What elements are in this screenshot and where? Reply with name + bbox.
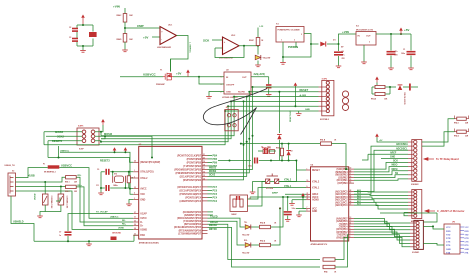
svg-text:XTAL1: XTAL1 [312,187,320,190]
svg-text:OUT: OUT [242,77,247,79]
svg-text:To TF Relay Board: To TF Relay Board [436,157,459,161]
svg-text:(T1/PCINT4)PB4: (T1/PCINT4)PB4 [183,165,201,168]
wire stub b2 [101,136,105,139]
svg-text:-: - [161,39,162,42]
U3 pin PC stub [202,196,208,198]
wire [251,244,259,246]
wire PD0 stub [208,211,214,213]
wire [335,235,349,267]
ICSP2 stub [319,91,327,93]
junction [248,91,250,93]
wire AREF row [368,153,408,155]
U4 pin (SS)PB2 stub [349,177,354,179]
op-amp U5A [160,27,177,45]
svg-text:31: 31 [134,217,136,219]
wire gnd stem [298,211,300,214]
svg-text:RD-: RD- [78,175,82,177]
power arrow +5V [399,28,403,35]
wire top res [372,86,375,88]
wire [411,86,418,88]
svg-text:GND: GND [446,249,451,251]
U4 pin AVCC stub [306,196,311,198]
svg-text:33: 33 [134,234,136,236]
ground [388,68,394,70]
wire MOSI [354,171,408,175]
wire xt left [112,172,114,176]
svg-text:USB-B_TH: USB-B_TH [5,165,16,167]
svg-text:C6: C6 [342,51,344,53]
svg-text:AD2: AD2 [357,197,361,200]
junction [282,56,284,58]
wire pad link [134,235,139,241]
IOH pin 1 [414,140,417,143]
junction [281,160,283,162]
ICSP2 stub [319,96,327,98]
U4 pin (MOSI)PB3 stub [349,174,354,176]
svg-text:XTA: XTA [446,251,451,254]
svg-text:(INT5/AIN3)PD4: (INT5/AIN3)PD4 [184,223,202,226]
JP2 pin 1 [227,114,230,117]
wire to diode [311,43,319,45]
IOH pin stub [408,178,414,180]
ground [122,50,128,52]
svg-text:C4: C4 [279,207,281,210]
ICSP1 pin 6 [91,139,95,143]
fuse F1 body [48,165,60,168]
wire AD0 [354,205,408,209]
svg-text:USHIELD: USHIELD [13,220,24,223]
JP5 pin stub [460,240,464,242]
JP5 pin stub [460,237,464,239]
U3 pin PD stub [202,220,208,222]
wire btn right [279,161,297,182]
IOH pin stub [408,149,414,151]
IOH pin stub [408,174,414,176]
svg-text:XTAL1(PC0): XTAL1(PC0) [140,171,154,174]
power flag top-left [81,15,85,26]
ground [126,204,132,206]
svg-text:CTS: CTS [446,242,451,244]
svg-text:RESET16U2: RESET16U2 [290,110,292,122]
wire L13 link [332,144,349,170]
svg-text:CG0603MLC-05E: CG0603MLC-05E [66,196,68,209]
capacitor C1 100n [407,51,416,55]
svg-text:XTAL1: XTAL1 [284,185,292,188]
svg-text:RN4C: RN4C [117,14,123,17]
wire USBVCC out [59,168,133,219]
ground [285,220,291,222]
svg-text:TX_VUCAP: TX_VUCAP [96,211,108,214]
connector ICSP1 [77,128,99,145]
svg-text:PC7: PC7 [213,187,218,189]
svg-text:ON/OFF: ON/OFF [226,85,235,87]
resistor RN1B [375,92,385,95]
U4 pin GND stub [306,210,311,212]
svg-text:17: 17 [350,173,352,175]
junction [44,181,46,183]
connector IOH [412,140,422,182]
svg-text:(TXD1/INT3)PD3: (TXD1/INT3)PD3 [183,221,201,223]
svg-text:+VIN: +VIN [342,30,349,34]
svg-text:21: 21 [307,193,309,195]
AD pin stub [408,205,414,207]
capacitor C1 body [89,32,97,37]
U4 pin (SCK)PB5 stub [349,168,354,170]
svg-text:3: 3 [221,84,222,86]
junction [279,207,281,209]
svg-text:VCC: VCC [465,227,470,229]
svg-text:VCC: VCC [446,227,451,229]
svg-text:(ADC3)PC3: (ADC3)PC3 [335,196,348,199]
U4 pin (ADC3)PC3 stub [349,196,354,198]
IOL pin 7 [416,242,419,245]
wire IO2 [354,232,410,240]
wire +VIN [124,8,126,14]
svg-text:DTR: DTR [446,238,451,240]
power arrow +5V IOH [375,134,379,138]
regulator U2 LP2985 body [224,72,251,94]
wire [67,236,69,241]
wire [212,39,223,41]
svg-text:AD5: AD5 [357,189,361,192]
wire SDA to RN4.1 [422,119,455,142]
JP5 pin stub [460,244,464,246]
ICSP2 stub [319,100,327,102]
svg-text:(PCINT7/OC/CLK)PB7: (PCINT7/OC/CLK)PB7 [177,155,202,157]
wire bracket [467,116,469,119]
wire gnd pin [209,92,224,97]
ground [250,192,256,194]
wire AD extra [404,211,408,213]
U3 pin PC stub [202,186,208,188]
resistor 22R [457,117,467,120]
resistor RN4D [123,34,127,43]
svg-text:(INT4/ICP1/CLK0)PC7: (INT4/ICP1/CLK0)PC7 [177,186,201,189]
svg-text:25: 25 [350,198,352,200]
connector AD [412,190,422,219]
wire [101,171,105,173]
IOH pin 7 [414,165,417,168]
wire z1 top [44,182,46,194]
wire shell [11,196,34,241]
annotation arrow to AD [425,210,435,213]
wire vert reset2 [47,141,49,158]
wire diode out [327,43,339,45]
JP5 pin stub [460,251,464,253]
wire RESET2 left [48,140,82,142]
U3 pin (RESET(PC1)/DW) stub [133,161,139,163]
svg-text:(AIN1)PD7: (AIN1)PD7 [336,217,348,220]
svg-text:(AIN2/PCINT11)PC2: (AIN2/PCINT11)PC2 [180,200,202,203]
wire pin6 down [95,141,101,142]
power arrow +5V [375,77,379,83]
IOH pin 9 [414,173,417,176]
svg-text:19: 19 [203,161,205,163]
wire icsp2 row4 [231,100,318,102]
power arrow +5V [186,70,190,77]
svg-text:XTAL2: XTAL2 [140,177,148,180]
capacitor bar [409,84,411,91]
wire [128,172,130,176]
connector IOL [414,220,424,249]
junction [278,91,280,93]
wire AVCC [130,188,133,190]
svg-text:TXD: TXD [465,234,470,236]
svg-text:RXD: RXD [446,231,451,233]
IOL pin stub [410,242,416,244]
wire bot res [372,93,375,95]
resistor RN4C [123,14,127,22]
ground [408,68,414,70]
regulator IC1 body [356,32,376,46]
svg-text:POWERSUPPLY_DC21MMX: POWERSUPPLY_DC21MMX [278,30,301,32]
svg-text:X2: X2 [12,171,14,173]
capacitor C6 47u [334,51,343,55]
diode D2b [286,151,290,156]
svg-text:XTA: XTA [465,251,469,254]
svg-text:PC2: PC2 [213,201,218,203]
wire stub b1 [100,132,102,136]
wire [390,56,392,68]
svg-text:(PCINT9/OC1B)PC5: (PCINT9/OC1B)PC5 [180,194,202,196]
wire IO4 [354,227,410,234]
IOH pin stub [408,166,414,168]
junction [229,160,231,162]
svg-text:UGND: UGND [118,227,124,229]
wire pin3 [295,42,297,48]
svg-text:28: 28 [134,228,136,230]
svg-text:(ADC1)PC1: (ADC1)PC1 [335,201,348,204]
svg-text:GND: GND [140,199,145,201]
svg-text:16: 16 [203,171,205,173]
IC U4 ATMEGA328 body [311,167,349,241]
wire aux gnd [56,198,60,202]
wire gate [170,59,172,72]
junction [67,240,69,242]
U3 pin UCAP stub [133,213,139,215]
svg-text:32: 32 [134,187,136,189]
U4 pin VCC stub [306,207,311,209]
JP5 pin stub [460,226,464,228]
svg-text:TXLED: TXLED [210,216,218,218]
wire icsp2 row1 [253,86,319,88]
transistor T1 FDN340P [163,73,173,81]
svg-text:AVCC: AVCC [140,188,147,191]
wire [110,171,133,173]
wire on/off [199,77,224,84]
svg-text:AD3: AD3 [357,194,361,197]
svg-text:(AIN0)PD6: (AIN0)PD6 [336,220,348,223]
svg-text:3v3(+3V3): 3v3(+3V3) [254,73,265,76]
wire opamp out [171,36,189,72]
svg-text:+5V: +5V [404,28,409,32]
wire [410,56,412,68]
wire top link [380,212,437,214]
wire RESET2 to U3 [48,158,133,163]
junction [100,131,102,133]
svg-text:D2: D2 [291,151,293,153]
svg-text:1: 1 [281,40,282,42]
U3 pin PB stub [202,158,208,160]
svg-text:UCAP: UCAP [140,213,147,216]
fiducial circle 2 [342,98,348,104]
svg-text:RXLED: RXLED [210,222,218,224]
IOH pin 8 [414,169,417,172]
wire [338,56,340,66]
wire cap2 [410,34,412,51]
svg-text:PC6: PC6 [213,190,218,192]
ground [206,97,212,99]
svg-text:+5V: +5V [143,36,148,40]
ICSP2 stub [319,105,327,107]
ground [361,62,367,64]
svg-text:RN2.A: RN2.A [260,240,266,243]
connector ICSP2 [322,80,334,115]
svg-text:+5V: +5V [176,72,181,76]
svg-text:(ADC0)PC0: (ADC0)PC0 [335,204,348,207]
LED TX (yellow) [245,224,251,229]
resistor 22R [457,130,467,133]
svg-text:10M: 10M [129,39,133,41]
svg-text:C3: C3 [69,37,71,39]
U4 pin (INT1)PD3 stub [349,228,354,230]
resistor RN2C [256,38,260,46]
svg-text:(MISO)PB4: (MISO)PB4 [335,171,348,174]
IOH pin 10 [414,177,417,180]
wire AREF link [362,154,368,160]
wire PC2 [208,200,213,202]
wire MOSI2 [95,135,120,137]
svg-text:11: 11 [350,222,352,224]
wire [215,47,223,49]
wire PD1 stub [208,214,214,216]
junction [114,151,116,153]
U3 pin XTAL1(PC0) stub [133,171,139,173]
IOH pin stub [408,153,414,155]
JP5 pin stub [460,230,464,232]
svg-text:(ICP)PB0: (ICP)PB0 [338,183,349,185]
svg-text:100n: 100n [267,147,271,149]
junction [287,196,289,198]
U3 pin PB stub [202,161,208,163]
IOH pin stub [408,170,414,172]
svg-text:27: 27 [350,193,352,195]
svg-text:IOL/MK1: IOL/MK1 [412,252,419,254]
wire PC6 [208,189,213,191]
wire [288,144,290,150]
connector X1 POWERSUPPLY [276,27,304,43]
wire [76,25,78,28]
junction [389,86,391,88]
svg-text:GND: GND [465,249,470,251]
svg-text:(RXD1/AIN1/INT2)PD2: (RXD1/AIN1/INT2)PD2 [177,217,202,220]
svg-text:(INT1)PD3: (INT1)PD3 [336,229,348,231]
U4 pin (RXD)PD0 stub [349,236,354,238]
IOL pin stub [410,225,416,227]
U3 pin PD stub [202,211,208,213]
svg-text:RN4: RN4 [324,271,327,274]
ICSP1 pin 2 [91,130,95,134]
wire [403,86,409,88]
svg-text:18: 18 [350,170,352,172]
svg-text:15: 15 [203,175,205,177]
AD pin 1 [414,190,417,193]
wire to gnd [40,212,45,216]
wire RD- [76,177,133,222]
ICSP2 stub [319,86,327,88]
svg-text:IOH/MK2: IOH/MK2 [411,184,419,186]
junction [227,105,229,107]
svg-text:(MOSI)PB3: (MOSI)PB3 [335,175,348,177]
svg-text:USBVCC: USBVCC [61,164,72,168]
U3 pin PB stub [202,154,208,156]
svg-text:16MHZ: 16MHZ [231,214,237,216]
AD pin 6 [414,207,417,210]
junction [390,33,392,35]
wire D+ [16,186,66,188]
wire M8RXD [208,224,321,259]
wire vert misoc [43,132,45,145]
svg-text:15: 15 [350,179,352,181]
svg-text:ICSP1: ICSP1 [78,126,83,128]
svg-text:17: 17 [203,168,205,170]
U4 pin AREF stub [306,193,311,195]
junction [240,143,242,145]
ground [86,244,92,246]
svg-text:RN3.2: RN3.2 [65,191,70,193]
wire MOSI2 route [120,136,152,157]
wire xtal2 328 [248,182,307,207]
svg-text:(SCLK/PCINT1)PB1: (SCLK/PCINT1)PB1 [180,176,202,178]
crystal XT2 body [113,176,126,183]
svg-text:TXL: TXL [244,222,247,224]
svg-text:CG0603MLC-05E: CG0603MLC-05E [50,196,52,209]
wire +5V to opamp [152,36,160,38]
svg-text:L_USBVCC: L_USBVCC [189,42,191,53]
junction [129,188,131,190]
svg-text:(PCINT5)PB5: (PCINT5)PB5 [187,162,202,164]
svg-text:RD-: RD- [122,220,126,222]
AD pin 2 [414,194,417,197]
svg-text:RTS: RTS [465,245,470,247]
wire GND 328 [299,210,306,212]
IC U3 ATMEGA16U2 body [139,146,202,239]
IOL pin stub [410,236,416,238]
svg-text:26: 26 [350,196,352,198]
wire TXLED [208,218,245,227]
wire IO7 [354,219,410,224]
U3 pin PD stub [202,223,208,225]
svg-text:ICSP: ICSP [79,149,84,151]
svg-text:(OC1)PB1: (OC1)PB1 [337,180,349,182]
svg-text:OUT: OUT [366,36,371,38]
U4 pin (OC1)PB1 stub [349,179,354,181]
wire JP5 link2 [423,243,444,245]
wire icsp2 row5 left [228,105,295,107]
svg-text:DTS-63K: DTS-63K [266,188,274,190]
wire gnd row [225,110,318,112]
ground [296,215,302,217]
U3 pin UGND stub [133,228,139,230]
svg-text:RESET: RESET [312,170,320,172]
connector X2 detail [10,176,14,194]
wire PC5 [208,193,213,195]
wire JP5 link1 [423,226,444,229]
U4 pin (ADC5)PC5 stub [349,191,354,193]
wire IO6 [354,221,410,226]
U3 pin PB stub [202,168,208,170]
junction [124,187,126,189]
